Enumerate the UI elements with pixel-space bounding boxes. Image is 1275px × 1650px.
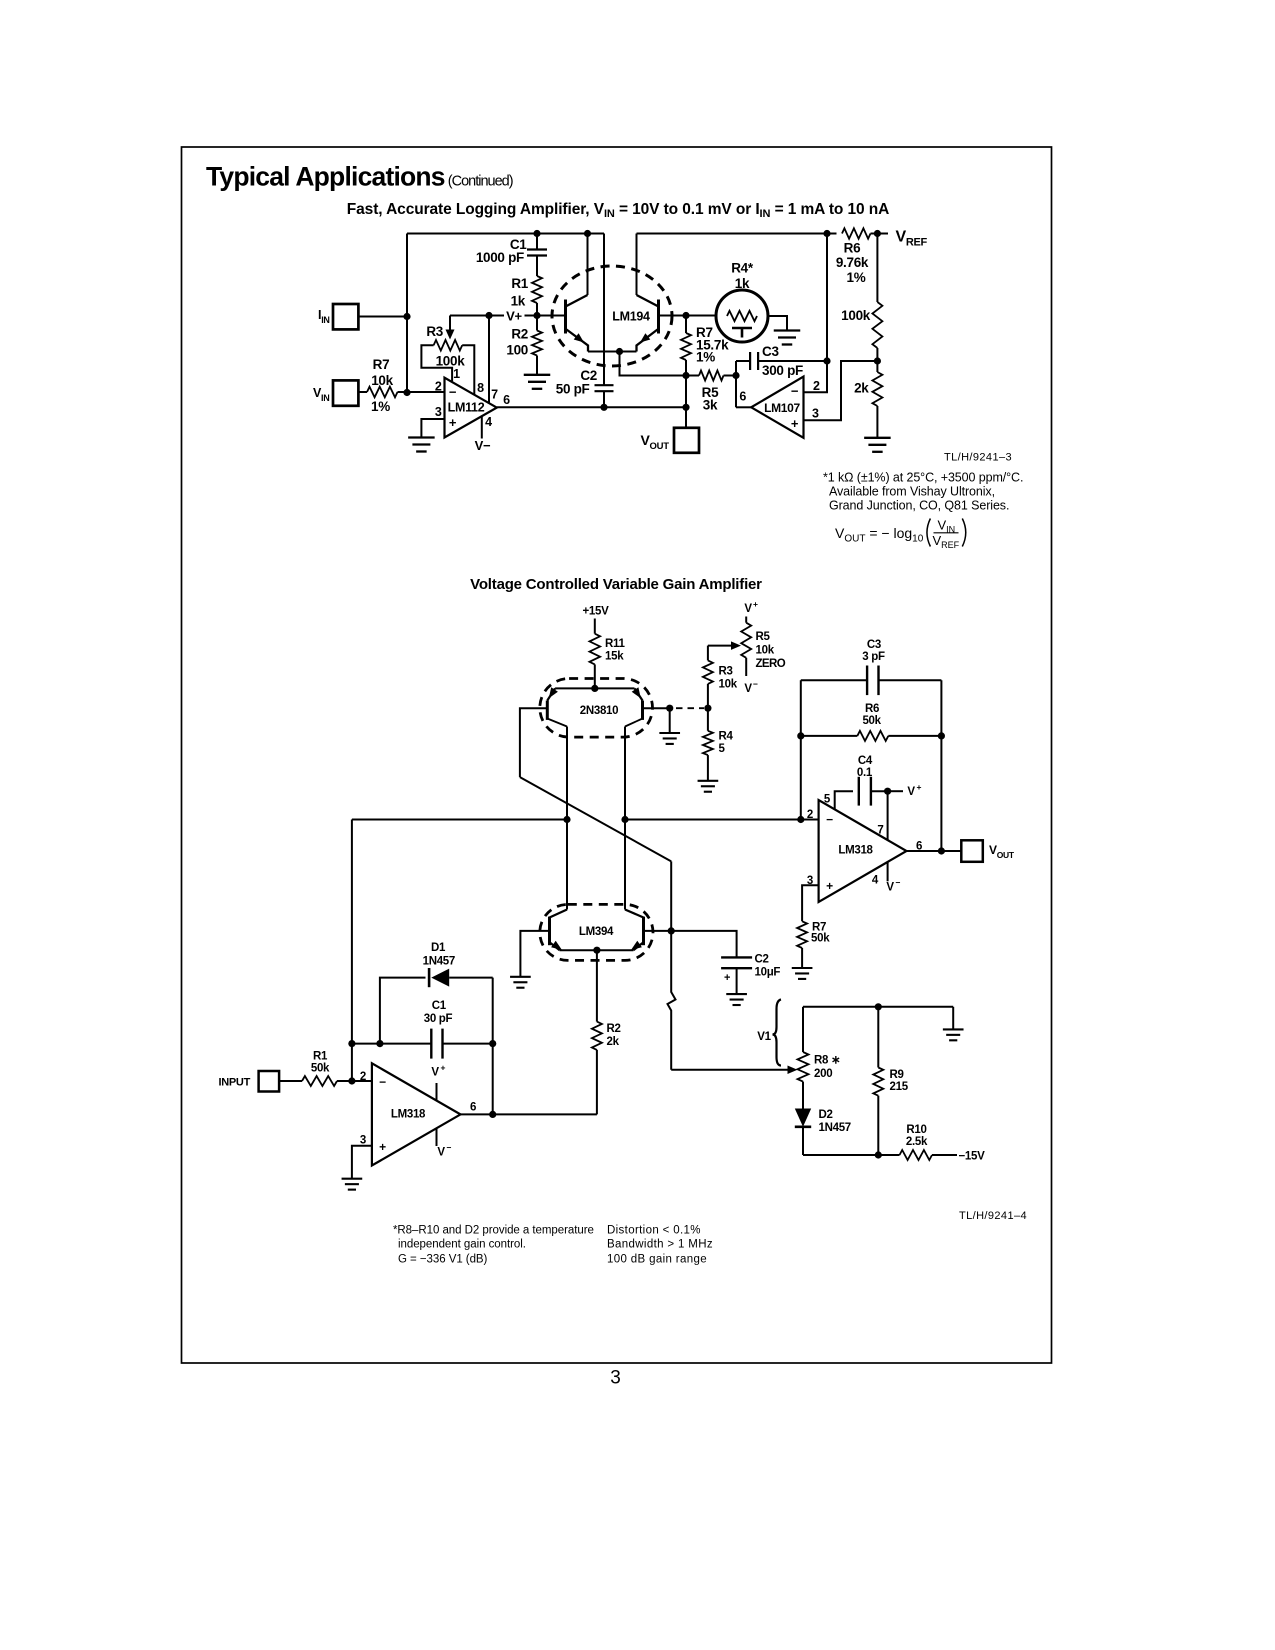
capacitor C3 3pF (801, 679, 867, 681)
svg-text:TL/H/9241–4: TL/H/9241–4 (959, 1210, 1027, 1222)
svg-text:30 pF: 30 pF (424, 1013, 453, 1025)
wire V+ to left base (537, 315, 566, 317)
svg-text:1%: 1% (696, 350, 715, 365)
op-amp U3 LM318 bottom (372, 1063, 461, 1165)
resistor R1 50k (279, 1080, 302, 1082)
svg-text:100k: 100k (841, 308, 871, 323)
svg-text:+: + (449, 415, 457, 430)
svg-text:−: − (379, 1075, 386, 1089)
node divider junction (874, 357, 881, 364)
op-amp U1 LM112 (445, 378, 497, 438)
svg-text:LM318: LM318 (391, 1109, 426, 1121)
svg-text:1k: 1k (511, 294, 526, 309)
svg-text:Grand Junction, CO, Q81 Series: Grand Junction, CO, Q81 Series. (829, 499, 1009, 513)
capacitor C2 10uF (721, 956, 752, 958)
wire pin3 to R7 (802, 885, 819, 921)
node V+ pin7 junction top LM318 (884, 788, 891, 795)
wire left base crossover start (520, 708, 547, 777)
resistor R7 50k (797, 921, 807, 948)
node right collector input junction (621, 816, 628, 823)
wire left input column (406, 234, 408, 393)
node D1 C1 left (376, 1040, 383, 1047)
transistor pair LM194 dashed outline (552, 266, 672, 366)
wire top rail left segment (407, 233, 604, 235)
wire R3 wiper from V+ (449, 316, 451, 332)
svg-text:+: + (791, 416, 799, 431)
capacitor C4 0.1 (858, 777, 860, 806)
svg-text:R9: R9 (890, 1069, 904, 1081)
svg-text:2: 2 (807, 809, 813, 821)
resistor R10 2.5k (900, 1150, 933, 1160)
wire right base LM394 (644, 930, 672, 932)
svg-text:+: + (441, 1063, 446, 1073)
svg-text:−: − (753, 679, 758, 689)
ground V1 network (943, 1028, 964, 1030)
svg-text:V: V (437, 1147, 445, 1159)
svg-text:10k: 10k (371, 373, 393, 388)
svg-text:LM318: LM318 (838, 845, 873, 857)
wire input line right segment (625, 819, 819, 821)
svg-text:1%: 1% (371, 399, 390, 414)
page frame (182, 147, 1052, 1363)
svg-text:R11: R11 (605, 638, 625, 650)
ground LM394 base (510, 976, 531, 978)
svg-text:100: 100 (506, 343, 528, 358)
node left collector rail (584, 230, 591, 237)
node top line R9 (875, 1003, 882, 1010)
svg-text:+: + (826, 879, 833, 893)
input pad IIN (333, 304, 358, 329)
svg-text:3k: 3k (703, 398, 718, 413)
transistor Q2b right half 2N3810 (635, 688, 643, 700)
resistor R3 100k potentiometer (434, 340, 463, 351)
svg-text:+15V: +15V (583, 606, 610, 618)
wire feedback line left segment (352, 819, 567, 821)
svg-text:LM194: LM194 (612, 310, 650, 324)
svg-text:10k: 10k (719, 679, 738, 691)
svg-text:C1: C1 (432, 1000, 447, 1012)
svg-text:Available from Vishay Ultronix: Available from Vishay Ultronix, (829, 485, 995, 499)
svg-text:R4*: R4* (731, 261, 754, 276)
wire output bottom LM318 (461, 1113, 597, 1115)
svg-text:2: 2 (435, 380, 442, 394)
capacitor C2 50pF (595, 384, 614, 386)
svg-text:5: 5 (824, 794, 831, 806)
wire V- stub bottom LM318 (436, 1128, 438, 1146)
svg-text:+: + (753, 599, 758, 609)
resistor 2k (876, 361, 878, 372)
node feedback pin2 junction (797, 816, 804, 823)
wire pin3 of LM107 (804, 361, 878, 420)
svg-text:Fast, Accurate Logging Amplifi: Fast, Accurate Logging Amplifier, VIN = … (347, 201, 889, 220)
svg-text:D1: D1 (431, 942, 446, 954)
svg-text:2.5k: 2.5k (906, 1136, 928, 1148)
wire dashed link to R3 R4 node (676, 707, 704, 709)
node C1 right (489, 1040, 496, 1047)
svg-text:100k: 100k (436, 353, 466, 368)
wire left collector to rail (587, 234, 589, 296)
node emitter junction (616, 348, 623, 355)
svg-text:ZERO: ZERO (756, 658, 786, 670)
svg-text:50k: 50k (311, 1063, 330, 1075)
svg-text:R6: R6 (865, 703, 879, 715)
wire V+ stub top LM318 (888, 790, 903, 792)
ground LM112 pin3 (408, 436, 435, 438)
svg-text:2: 2 (813, 379, 820, 393)
ground 2k (864, 437, 891, 439)
svg-text:3: 3 (610, 1368, 621, 1389)
wire R3 left lead to pin1 (421, 345, 452, 381)
op-amp U4 LM318 top (819, 800, 907, 902)
node C1 left junction (348, 1040, 355, 1047)
resistor R7 15.7k 1% (685, 316, 687, 334)
svg-text:LM394: LM394 (579, 926, 614, 938)
svg-text:C4: C4 (858, 755, 873, 767)
svg-text:LM112: LM112 (448, 401, 485, 415)
wire crossover down to LM394 base (670, 861, 672, 929)
svg-text:2N3810: 2N3810 (580, 705, 618, 717)
svg-text:5: 5 (719, 743, 726, 755)
svg-text:3: 3 (812, 407, 819, 421)
svg-text:V−: V− (475, 438, 491, 453)
wire feedback loop left vertical (800, 680, 802, 819)
wire V1 top line (803, 1006, 953, 1008)
wire emitter bus LM194 (588, 351, 637, 353)
resistor R2 100 (536, 316, 538, 331)
svg-text:−: − (896, 878, 901, 888)
wire emitter bus LM394 (560, 949, 634, 951)
svg-text:C2: C2 (755, 954, 769, 966)
svg-text:2k: 2k (607, 1036, 620, 1048)
resistor 100k (876, 234, 878, 303)
svg-text:−: − (449, 385, 457, 400)
node output feedback junction (938, 847, 945, 854)
svg-text:R4: R4 (719, 731, 734, 743)
ground C2 (726, 993, 747, 995)
svg-text:1: 1 (453, 367, 460, 381)
svg-text:15k: 15k (605, 651, 624, 663)
svg-text:TL/H/9241–3: TL/H/9241–3 (944, 452, 1012, 464)
node output VOUT junction (682, 404, 689, 411)
svg-text:R8 ∗: R8 ∗ (814, 1055, 840, 1067)
svg-text:*R8–R10 and D2 provide a tempe: *R8–R10 and D2 provide a temperature (393, 1225, 594, 1237)
wire pin4 V- (481, 416, 483, 438)
node feedback output junction (489, 1111, 496, 1118)
svg-text:R1: R1 (313, 1051, 328, 1063)
node R3 R4 junction (704, 705, 711, 712)
svg-text:3: 3 (435, 405, 442, 419)
node R7 R5 emitter junction (682, 372, 689, 379)
svg-text:6: 6 (470, 1102, 476, 1114)
wire right base to R4 (659, 315, 718, 317)
node C2 bottom junction (600, 404, 607, 411)
svg-text:10μF: 10μF (755, 967, 781, 979)
node V+ R1 R2 junction (533, 312, 540, 319)
svg-text:R2: R2 (511, 327, 528, 342)
wire bottom line V1 network (803, 1154, 900, 1156)
wire N1 to LM107 output (735, 361, 737, 407)
node crossover base junction (668, 927, 675, 934)
svg-text:G = −336 V1 (dB): G = −336 V1 (dB) (398, 1254, 488, 1266)
svg-text:V: V (907, 786, 915, 798)
wire top rail right segment (637, 233, 837, 235)
svg-text:1N457: 1N457 (819, 1122, 851, 1134)
wire pin2 of LM107 (804, 361, 828, 392)
resistor R8 200 trimmer (802, 1007, 804, 1052)
svg-text:R10: R10 (906, 1124, 926, 1136)
node base R7 junction (682, 312, 689, 319)
node R6 right (938, 732, 945, 739)
svg-text:100 dB gain range: 100 dB gain range (607, 1254, 707, 1266)
output pad VOUT (674, 428, 699, 453)
resistor R7 10k 1% (358, 391, 367, 393)
svg-text:1k: 1k (735, 276, 750, 291)
wire right collector to rail (636, 234, 638, 296)
resistor R2 2k (596, 950, 598, 1021)
svg-text:C3: C3 (762, 344, 779, 359)
svg-text:R2: R2 (607, 1023, 621, 1035)
svg-text:6: 6 (503, 393, 510, 407)
ground pin3 bottom LM318 (342, 1178, 363, 1180)
output pad VOUT top (961, 840, 983, 862)
svg-text:LM107: LM107 (764, 401, 800, 415)
svg-text:4: 4 (485, 415, 492, 429)
capacitor C3 300pF (736, 360, 750, 362)
wire IIN to column (358, 316, 407, 318)
wire pin7 of LM112 (488, 316, 490, 404)
transistor Q3a left half LM394 (550, 910, 568, 918)
wire pin5 stub (835, 791, 853, 809)
wire pin3 to ground bottom LM318 (352, 1146, 372, 1179)
wire feedback loop right vertical (940, 680, 942, 851)
svg-text:+: + (724, 972, 730, 984)
node pin2 junction bottom LM318 (348, 1077, 355, 1084)
wire emitters down to R5 line (620, 352, 687, 376)
svg-text:*1 kΩ (±1%) at 25°C, +3500 ppm: *1 kΩ (±1%) at 25°C, +3500 ppm/°C. (823, 471, 1023, 485)
wire crossover diagonal (520, 777, 671, 861)
transistor Q1a left half LM194 (564, 300, 567, 334)
transistor Q3b right half LM394 (625, 910, 644, 918)
resistor R3 10k (707, 646, 709, 661)
transistor pair LM394 dashed outline (540, 904, 653, 960)
svg-text:+: + (379, 1140, 386, 1154)
wire base to C2 (671, 931, 736, 958)
node right base ground junction (666, 705, 673, 712)
node C1 top (533, 230, 540, 237)
wire control line with break (668, 931, 676, 1070)
svg-text:R3: R3 (426, 324, 443, 339)
wire emitter bus 2N3810 (555, 687, 634, 689)
wire R3 right lead to pin8 (462, 345, 474, 394)
svg-text:9.76k: 9.76k (836, 255, 869, 270)
op-amp U2 LM107 (751, 377, 803, 438)
wire left base LM394 to ground (520, 931, 549, 977)
resistor R6 50k feedback (801, 735, 858, 737)
node emitter junction 2N3810 (591, 685, 598, 692)
wire VOUT drop (685, 407, 687, 428)
svg-text:2k: 2k (854, 381, 869, 396)
resistor R1 1k (532, 276, 542, 303)
svg-text:Distortion < 0.1%: Distortion < 0.1% (607, 1225, 701, 1237)
svg-text:R3: R3 (719, 666, 733, 678)
wire ground stub right (952, 1007, 954, 1030)
svg-text:V1: V1 (757, 1031, 771, 1043)
capacitor C1 1000pF (536, 234, 538, 250)
wire R4 right to ground (767, 316, 788, 331)
wire LM112 output (497, 406, 686, 408)
svg-text:R7: R7 (373, 357, 390, 372)
wire D1 loop left (380, 978, 426, 1044)
svg-text:4: 4 (872, 875, 879, 887)
wire left collector 2N3810 down (547, 719, 567, 727)
svg-text:2: 2 (360, 1071, 366, 1083)
svg-text:1000 pF: 1000 pF (476, 250, 524, 265)
wire junction down to output line (685, 376, 687, 408)
wire V+ node (450, 315, 504, 317)
wire right base 2N3810 (643, 707, 670, 709)
wire output top LM318 (907, 850, 962, 852)
wire right collector 2N3810 down (625, 719, 643, 727)
svg-text:V: V (886, 882, 894, 894)
input pad INPUT (259, 1071, 280, 1092)
node pin2 C3 junction (823, 357, 830, 364)
ground R7 (792, 967, 813, 969)
node left collector feedback junction (563, 816, 570, 823)
wire V+ stub bottom LM318 (436, 1083, 438, 1101)
wire pin3 to ground (421, 419, 444, 438)
resistor R4 5 (707, 708, 709, 731)
svg-text:1N457: 1N457 (423, 956, 455, 968)
svg-text:R6: R6 (844, 241, 861, 256)
node R6 left (797, 732, 804, 739)
ground R4 (774, 329, 801, 331)
node IIN junction (403, 313, 410, 320)
node bottom line R9 (875, 1151, 882, 1158)
svg-text:−: − (826, 813, 833, 827)
resistor R9 215 (877, 1007, 879, 1068)
svg-text:7: 7 (877, 825, 883, 837)
node N1 R5 C3 junction (732, 372, 739, 379)
svg-text:−: − (447, 1143, 452, 1153)
transistor pair 2N3810 dashed outline (540, 679, 653, 738)
ground R4 (698, 780, 719, 782)
svg-text:V+: V+ (506, 309, 522, 324)
svg-text:3 pF: 3 pF (862, 651, 885, 663)
ground 2N3810 base (659, 732, 680, 734)
svg-text:8: 8 (477, 381, 484, 395)
svg-text:10k: 10k (756, 645, 775, 657)
node VREF junction (874, 230, 881, 237)
resistor R11 15k (594, 619, 596, 634)
node VIN junction (403, 389, 410, 396)
node LM394 emitter junction (593, 947, 600, 954)
svg-text:50k: 50k (862, 715, 881, 727)
svg-text:50k: 50k (811, 933, 830, 945)
wire R5 wiper (708, 645, 733, 647)
ground below R2 (524, 374, 551, 376)
svg-text:7: 7 (491, 388, 498, 402)
svg-text:R1: R1 (511, 276, 528, 291)
transistor Q2a left half 2N3810 (547, 688, 555, 700)
capacitor C1 30pF (380, 1043, 431, 1045)
diode D1 1N457 (428, 968, 431, 987)
svg-text:−15V: −15V (959, 1151, 986, 1163)
wire control line to R8 wiper (671, 1069, 791, 1071)
wire D1 loop right (492, 978, 494, 1115)
resistor R6 9.76k 1% (842, 228, 871, 238)
node rail R6 junction (823, 230, 830, 237)
svg-text:D2: D2 (819, 1109, 833, 1121)
node V+ pin7 junction (485, 312, 492, 319)
svg-text:1%: 1% (847, 270, 866, 285)
diode D2 1N457 (795, 1109, 811, 1127)
resistor R5 3k (686, 375, 699, 377)
svg-text:V: V (744, 603, 752, 615)
svg-text:R5: R5 (756, 631, 771, 643)
wire pin4 stub (887, 862, 889, 882)
transistor Q1b right half LM194 (657, 300, 660, 334)
wire C2 top branch (603, 234, 605, 386)
wire collector node to pin2 node (826, 234, 828, 362)
svg-text:−: − (791, 384, 799, 399)
svg-text:200: 200 (814, 1068, 832, 1080)
wire base ground stub (669, 708, 671, 733)
svg-text:Voltage Controlled Variable Ga: Voltage Controlled Variable Gain Amplifi… (470, 576, 762, 593)
svg-text:V: V (431, 1067, 439, 1079)
svg-text:V: V (744, 683, 752, 695)
svg-text:6: 6 (739, 390, 746, 404)
svg-text:300 pF: 300 pF (762, 363, 803, 378)
svg-text:50 pF: 50 pF (556, 382, 590, 397)
resistor R4 1k trimmer (716, 290, 768, 342)
svg-text:0.1: 0.1 (857, 767, 873, 779)
svg-text:+: + (917, 782, 922, 792)
svg-text:INPUT: INPUT (218, 1077, 250, 1089)
svg-text:215: 215 (890, 1081, 909, 1093)
svg-text:Bandwidth > 1 MHz: Bandwidth > 1 MHz (607, 1239, 713, 1251)
wire pin7 (887, 791, 889, 840)
input pad VIN (333, 380, 358, 405)
svg-text:independent gain control.: independent gain control. (398, 1239, 526, 1251)
wire feedback vertical (351, 820, 353, 1082)
svg-text:C3: C3 (867, 639, 881, 651)
potentiometer R5 10k ZERO (745, 617, 747, 623)
